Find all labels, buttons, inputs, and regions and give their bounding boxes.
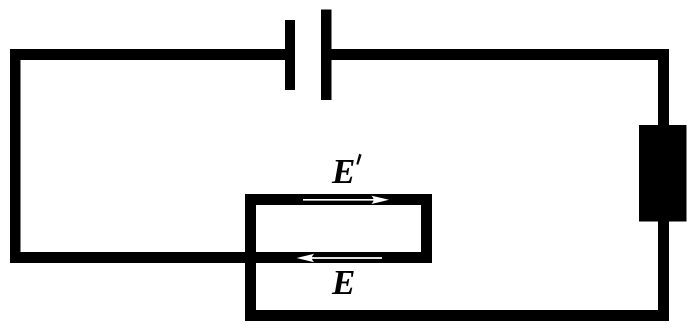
resistor R (solid block) [639,125,687,222]
wire inner-loop top edge [245,194,432,205]
wire top-right segment [326,49,669,60]
svg-text:E: E [331,152,355,191]
battery left plate [285,20,295,90]
arrow E' direction (white, pointing right, on inner-loop top edge) [303,196,389,204]
arrow E direction (white, pointing left, on bottom edge) [297,254,383,262]
wire inner-loop left vertical (continues down to bottom loop) [245,194,256,321]
wire top-left segment [10,49,290,60]
wire bottom loop horizontal [245,310,669,321]
wire left vertical [10,49,21,263]
wire right vertical [658,49,669,321]
svg-text:E: E [331,263,355,302]
wire bottom-left horizontal (continues as inner loop bottom edge) [10,252,432,263]
battery right plate [321,10,332,101]
wire inner-loop right vertical [421,194,432,263]
